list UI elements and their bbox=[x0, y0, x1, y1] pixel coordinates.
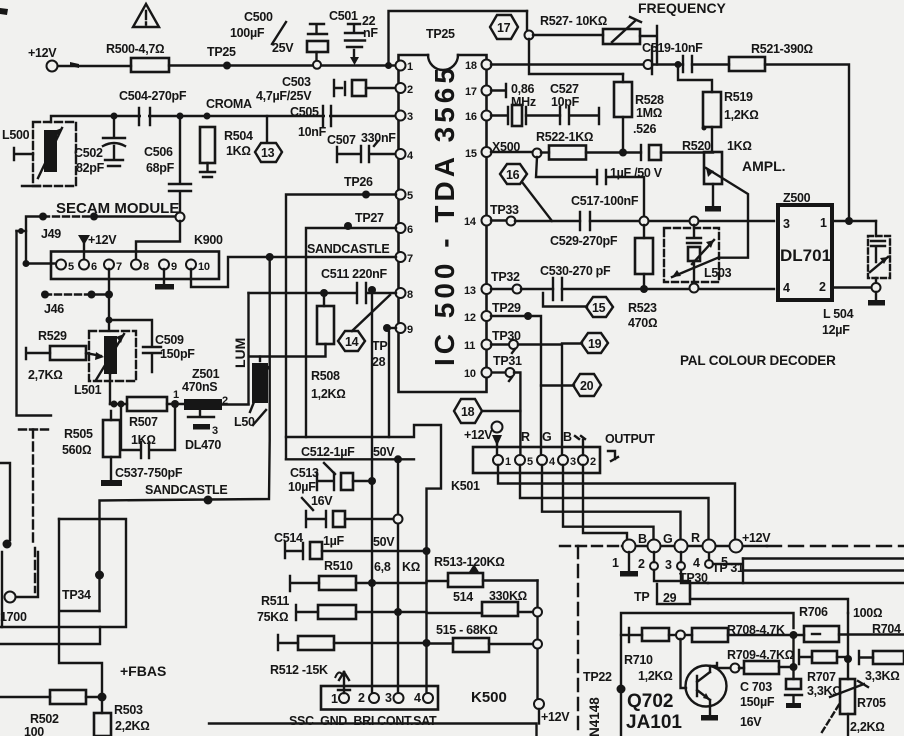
svg-text:1: 1 bbox=[505, 456, 511, 468]
svg-text:SANDCASTLE: SANDCASTLE bbox=[307, 242, 389, 256]
svg-text:OUTPUT: OUTPUT bbox=[605, 432, 655, 446]
svg-text:SECAM MODULE: SECAM MODULE bbox=[56, 200, 179, 217]
svg-text:R705: R705 bbox=[857, 696, 886, 710]
svg-text:R505: R505 bbox=[64, 427, 93, 441]
capacitor C527 bbox=[550, 82, 599, 124]
capacitor C703 bbox=[740, 667, 802, 729]
svg-text:7: 7 bbox=[407, 253, 413, 265]
svg-text:R706: R706 bbox=[799, 605, 828, 619]
svg-text:9: 9 bbox=[407, 324, 413, 336]
svg-text:8: 8 bbox=[407, 289, 413, 301]
svg-text:K900: K900 bbox=[194, 233, 223, 247]
svg-text:TP34: TP34 bbox=[62, 588, 91, 602]
wire +12V to R500 bbox=[58, 62, 131, 68]
wire K501 pin3 bus B bbox=[563, 465, 654, 540]
svg-text:KΩ: KΩ bbox=[402, 560, 420, 574]
svg-text:3: 3 bbox=[385, 691, 392, 705]
svg-text:Z501: Z501 bbox=[192, 367, 220, 381]
svg-text:TP32: TP32 bbox=[491, 270, 520, 284]
delay line Z501 DL470 bbox=[173, 367, 249, 410]
svg-text:470Ω: 470Ω bbox=[628, 316, 657, 330]
svg-text:25V: 25V bbox=[272, 41, 294, 55]
wire pin13 row bbox=[491, 270, 553, 294]
pin 18 bbox=[465, 60, 492, 73]
svg-text:1700: 1700 bbox=[0, 610, 27, 624]
svg-text:4,7µF/25V: 4,7µF/25V bbox=[256, 89, 312, 103]
resistor R504 bbox=[200, 127, 253, 177]
pin 15 bbox=[465, 147, 492, 160]
wire pin12 G line bbox=[491, 301, 541, 455]
svg-text:100: 100 bbox=[24, 725, 44, 736]
svg-text:R519: R519 bbox=[724, 90, 753, 104]
svg-text:2,7KΩ: 2,7KΩ bbox=[28, 368, 63, 382]
svg-text:R521-390Ω: R521-390Ω bbox=[751, 42, 813, 56]
svg-text:C507: C507 bbox=[327, 133, 356, 147]
svg-text:+12V: +12V bbox=[464, 428, 493, 442]
svg-text:C530-270 pF: C530-270 pF bbox=[540, 264, 611, 278]
svg-text:DL470: DL470 bbox=[185, 438, 221, 452]
svg-text:SSC GND BRI CONT.SAT: SSC GND BRI CONT.SAT bbox=[289, 714, 437, 728]
coil L500 bbox=[2, 122, 76, 186]
svg-text:2,2KΩ: 2,2KΩ bbox=[850, 720, 885, 734]
svg-text:515 - 68KΩ: 515 - 68KΩ bbox=[436, 623, 498, 637]
arrow K500 pin1 bbox=[338, 672, 350, 693]
test point TP34 bbox=[62, 571, 104, 603]
svg-text:1µF: 1µF bbox=[323, 534, 345, 548]
hex node 20 bbox=[541, 374, 601, 396]
svg-text:R503: R503 bbox=[114, 703, 143, 717]
svg-text:L500: L500 bbox=[2, 128, 30, 142]
svg-text:10: 10 bbox=[464, 368, 476, 380]
svg-text:514: 514 bbox=[453, 590, 473, 604]
svg-text:TP33: TP33 bbox=[490, 203, 519, 217]
svg-text:2,2KΩ: 2,2KΩ bbox=[115, 719, 150, 733]
test point TP31 lower bbox=[705, 553, 904, 583]
hex node 17 bbox=[490, 15, 518, 39]
svg-text:6: 6 bbox=[91, 261, 97, 273]
coil L504 bbox=[822, 307, 854, 337]
resistor R507 bbox=[127, 397, 184, 447]
svg-text:LUM: LUM bbox=[232, 338, 248, 368]
svg-text:3: 3 bbox=[407, 111, 413, 123]
svg-text:1,2KΩ: 1,2KΩ bbox=[724, 108, 759, 122]
svg-text:R529: R529 bbox=[38, 329, 67, 343]
wire DL701 pin1 bbox=[832, 217, 876, 225]
svg-text:R523: R523 bbox=[628, 301, 657, 315]
svg-text:3: 3 bbox=[212, 425, 218, 437]
svg-text:C502: C502 bbox=[74, 146, 103, 160]
svg-text:C513: C513 bbox=[290, 466, 319, 480]
capacitor C513 bbox=[288, 466, 403, 527]
svg-text:TP: TP bbox=[372, 339, 387, 353]
svg-text:R510: R510 bbox=[324, 559, 353, 573]
capacitor C537 bbox=[115, 404, 183, 480]
pin 17 bbox=[465, 86, 492, 99]
svg-text:12: 12 bbox=[464, 312, 476, 324]
svg-text:16V: 16V bbox=[740, 715, 762, 729]
svg-text:TP25: TP25 bbox=[426, 27, 455, 41]
svg-text:1: 1 bbox=[612, 556, 619, 570]
pin 6 bbox=[396, 223, 414, 236]
terminal 3 G bbox=[663, 532, 688, 572]
svg-text:8: 8 bbox=[143, 261, 149, 273]
svg-text:100Ω: 100Ω bbox=[853, 606, 882, 620]
svg-text:1: 1 bbox=[820, 216, 827, 230]
svg-text:3: 3 bbox=[783, 217, 790, 231]
svg-text:TP29: TP29 bbox=[492, 301, 521, 315]
capacitor C506 bbox=[144, 113, 191, 214]
resistor R511 bbox=[257, 594, 427, 624]
jumper J46 bbox=[41, 291, 113, 317]
svg-text:100µF: 100µF bbox=[230, 26, 265, 40]
pin 7 bbox=[396, 252, 414, 265]
svg-text:C 703: C 703 bbox=[740, 680, 772, 694]
connector K501 bbox=[451, 447, 600, 493]
svg-text:16: 16 bbox=[506, 168, 520, 182]
R704 label bbox=[853, 606, 901, 636]
hex node 18 bbox=[454, 399, 520, 423]
capacitor C505 bbox=[290, 105, 331, 139]
wire left rail bbox=[17, 231, 52, 416]
left module dashed border bbox=[19, 430, 51, 593]
test point TP29 lower bbox=[634, 552, 848, 613]
node CROMA bbox=[204, 97, 252, 120]
capacitor C519 bbox=[642, 41, 729, 72]
wire +12V feeder bbox=[536, 581, 538, 700]
wire bottom rail bbox=[209, 724, 537, 736]
svg-text:3: 3 bbox=[570, 456, 576, 468]
capacitor C511 bbox=[249, 267, 397, 303]
resistor R503 bbox=[94, 697, 150, 736]
svg-text:5: 5 bbox=[68, 261, 74, 273]
svg-text:9: 9 bbox=[171, 261, 177, 273]
pin 3 bbox=[396, 111, 414, 124]
svg-text:5: 5 bbox=[527, 456, 533, 468]
svg-text:560Ω: 560Ω bbox=[62, 443, 91, 457]
+12V supply terminal bbox=[28, 46, 58, 72]
pin 10 bbox=[464, 368, 492, 381]
svg-text:330nF: 330nF bbox=[361, 131, 396, 145]
svg-text:13: 13 bbox=[464, 285, 476, 297]
svg-text:R522-1KΩ: R522-1KΩ bbox=[536, 130, 593, 144]
svg-text:Z500: Z500 bbox=[783, 191, 811, 205]
resistor R502 bbox=[0, 690, 102, 736]
svg-text:75KΩ: 75KΩ bbox=[257, 610, 288, 624]
svg-text:5: 5 bbox=[407, 190, 413, 202]
capacitor C507 bbox=[327, 131, 396, 162]
wire brightness bus bbox=[371, 293, 373, 698]
svg-text:15: 15 bbox=[592, 301, 606, 315]
svg-text:Q702: Q702 bbox=[627, 691, 673, 712]
svg-text:14: 14 bbox=[345, 335, 359, 349]
svg-text:1: 1 bbox=[173, 389, 179, 401]
svg-text:1,2KΩ: 1,2KΩ bbox=[311, 387, 346, 401]
svg-text:C537-750pF: C537-750pF bbox=[115, 466, 183, 480]
svg-text:C506: C506 bbox=[144, 145, 173, 159]
svg-text:12µF: 12µF bbox=[822, 323, 850, 337]
svg-text:2: 2 bbox=[590, 456, 596, 468]
wire Q702 base bbox=[681, 639, 687, 688]
resistor R512 bbox=[270, 635, 431, 678]
svg-text:R507: R507 bbox=[129, 415, 158, 429]
svg-text:6,8: 6,8 bbox=[374, 560, 391, 574]
pin 2 bbox=[396, 83, 414, 96]
svg-text:R511: R511 bbox=[261, 594, 289, 608]
svg-text:4: 4 bbox=[693, 556, 700, 570]
svg-text:G: G bbox=[663, 532, 672, 546]
svg-text:C512-1µF: C512-1µF bbox=[301, 445, 355, 459]
resistor R706 bbox=[799, 605, 904, 642]
wire TP26 line bbox=[286, 175, 396, 459]
svg-text:L503: L503 bbox=[704, 266, 732, 280]
module border dashed bbox=[560, 546, 904, 736]
svg-text:IC 500 - TDA 3565: IC 500 - TDA 3565 bbox=[429, 64, 460, 366]
svg-text:3: 3 bbox=[665, 558, 672, 572]
wire K900 pin8 to secam line bbox=[136, 221, 180, 259]
svg-text:AMPL.: AMPL. bbox=[742, 158, 786, 174]
wire sandcastle net bbox=[100, 257, 270, 611]
svg-text:.526: .526 bbox=[633, 122, 656, 136]
ground DL701 pin2 bbox=[832, 288, 885, 306]
warning triangle bbox=[133, 4, 159, 27]
+12V feed K900 pin6 bbox=[78, 233, 117, 259]
wire K900 pin7 down bbox=[108, 269, 110, 331]
capacitor DL470 pin3 ground bbox=[185, 410, 221, 452]
capacitor C504 bbox=[119, 89, 187, 125]
IC Z500 DL701 bbox=[778, 191, 832, 300]
capacitor C529 bbox=[550, 212, 774, 248]
svg-text:17: 17 bbox=[497, 21, 511, 35]
svg-text:C509: C509 bbox=[155, 333, 184, 347]
svg-text:PAL COLOUR DECODER: PAL COLOUR DECODER bbox=[680, 353, 836, 368]
svg-text:J49: J49 bbox=[41, 227, 61, 241]
svg-text:+12V: +12V bbox=[28, 46, 57, 60]
svg-text:SANDCASTLE: SANDCASTLE bbox=[145, 483, 227, 497]
wire K501 pin1 bus bbox=[498, 465, 735, 540]
svg-text:1KΩ: 1KΩ bbox=[727, 139, 752, 153]
svg-text:TP 31: TP 31 bbox=[712, 561, 744, 575]
crystal tick pin17 bbox=[491, 82, 536, 109]
resistor R522 bbox=[536, 130, 641, 160]
terminal J700 bbox=[0, 540, 38, 628]
wire luma row bbox=[110, 401, 127, 408]
wire K900 pin10 to IC pin7 bbox=[191, 253, 396, 287]
terminal 4 R bbox=[691, 531, 716, 570]
capacitor C502 bbox=[74, 113, 125, 176]
crystal X500 bbox=[491, 105, 560, 126]
resistor R710 bbox=[621, 628, 685, 683]
IC U500 TDA3565 body bbox=[399, 27, 487, 392]
svg-text:R504: R504 bbox=[224, 129, 253, 143]
resistor R708 bbox=[685, 623, 804, 642]
resistor R508 bbox=[249, 293, 346, 404]
pin 1 bbox=[396, 61, 414, 74]
svg-text:TP30: TP30 bbox=[679, 571, 708, 585]
resistor R500 bbox=[106, 42, 169, 72]
wire secam dashed link bbox=[39, 213, 185, 222]
svg-text:R512 -15K: R512 -15K bbox=[270, 663, 328, 677]
svg-text:4: 4 bbox=[414, 691, 421, 705]
svg-text:G: G bbox=[542, 430, 551, 444]
svg-text:20: 20 bbox=[580, 379, 594, 393]
svg-text:5: 5 bbox=[721, 555, 728, 569]
svg-text:L50: L50 bbox=[234, 415, 255, 429]
terminal 1 bbox=[612, 540, 636, 571]
svg-text:TP31: TP31 bbox=[493, 354, 522, 368]
svg-text:14: 14 bbox=[464, 216, 477, 228]
svg-text:50V: 50V bbox=[373, 535, 395, 549]
coil L503 bbox=[664, 225, 732, 293]
svg-text:TP26: TP26 bbox=[344, 175, 373, 189]
wire amp right vertical bbox=[847, 613, 849, 679]
svg-text:DL701: DL701 bbox=[780, 246, 831, 265]
svg-text:2: 2 bbox=[819, 280, 826, 294]
svg-text:10: 10 bbox=[198, 261, 210, 273]
capacitor C503 bbox=[256, 75, 396, 103]
wire BGR feed row bbox=[622, 545, 767, 547]
capacitor C501 bbox=[329, 9, 378, 65]
capacitor C530 bbox=[540, 264, 774, 300]
wire TP27 line bbox=[306, 211, 396, 437]
pin 16 bbox=[465, 111, 492, 124]
svg-text:R513-120KΩ: R513-120KΩ bbox=[434, 555, 505, 569]
svg-text:16: 16 bbox=[465, 111, 477, 123]
wire pin14 row bbox=[490, 203, 580, 226]
svg-text:0,86: 0,86 bbox=[511, 82, 534, 96]
pin 4 bbox=[396, 149, 415, 162]
connector K500 bbox=[321, 686, 438, 710]
svg-text:J46: J46 bbox=[44, 302, 64, 316]
svg-text:R528: R528 bbox=[635, 93, 664, 107]
hex node 14 bbox=[338, 295, 390, 351]
potentiometer R520 bbox=[672, 139, 752, 277]
svg-text:C527: C527 bbox=[550, 82, 579, 96]
svg-text:17: 17 bbox=[465, 86, 477, 98]
+12V lower terminal bbox=[534, 699, 570, 724]
svg-text:3,3KΩ: 3,3KΩ bbox=[865, 669, 900, 683]
capacitor C509 bbox=[106, 317, 196, 373]
svg-text:L501: L501 bbox=[74, 383, 102, 397]
potentiometer R527 bbox=[525, 11, 658, 65]
wire supply bracket bbox=[286, 425, 441, 698]
resistor R528 bbox=[614, 74, 664, 152]
svg-text:R704: R704 bbox=[872, 622, 901, 636]
resistor R529 bbox=[26, 329, 104, 382]
svg-text:B: B bbox=[563, 430, 572, 444]
wire amp module frame bbox=[621, 613, 794, 736]
wire IC top to R527 branch bbox=[389, 11, 528, 65]
svg-text:MHz: MHz bbox=[511, 95, 536, 109]
wire croma line bbox=[51, 116, 398, 122]
svg-text:15: 15 bbox=[465, 148, 477, 160]
svg-text:C503: C503 bbox=[282, 75, 311, 89]
svg-text:C505: C505 bbox=[290, 105, 319, 119]
svg-text:50V: 50V bbox=[373, 445, 395, 459]
svg-text:19: 19 bbox=[588, 337, 602, 351]
pin 14 bbox=[464, 216, 492, 229]
svg-text:TP: TP bbox=[634, 590, 649, 604]
pin 9 bbox=[396, 323, 414, 336]
capacitor C500 bbox=[230, 10, 328, 69]
resistor R519 bbox=[675, 61, 759, 152]
resistor R515 bbox=[427, 623, 543, 652]
svg-text:CROMA: CROMA bbox=[206, 97, 252, 111]
hex node 15 bbox=[543, 293, 613, 317]
svg-text:1MΩ: 1MΩ bbox=[636, 106, 662, 120]
capacitor C517 bbox=[536, 157, 644, 216]
svg-text:1KΩ: 1KΩ bbox=[226, 144, 251, 158]
test point TP28 bbox=[372, 324, 396, 437]
capacitor C512 bbox=[301, 445, 395, 490]
svg-text:TP25: TP25 bbox=[207, 45, 236, 59]
svg-text:N4148: N4148 bbox=[587, 697, 602, 736]
wire pin15 row bbox=[491, 140, 549, 158]
wire pin11 B line bbox=[491, 329, 562, 455]
svg-text:2: 2 bbox=[358, 691, 365, 705]
wire pin10 R line bbox=[492, 354, 522, 455]
svg-text:R: R bbox=[691, 531, 700, 545]
svg-text:R508: R508 bbox=[311, 369, 340, 383]
svg-text:K501: K501 bbox=[451, 479, 480, 493]
wire pin18 row bbox=[491, 60, 683, 69]
svg-text:68pF: 68pF bbox=[146, 161, 175, 175]
svg-text:L 504: L 504 bbox=[823, 307, 854, 321]
svg-text:4: 4 bbox=[783, 281, 790, 295]
hex node 19 bbox=[562, 333, 608, 353]
wire K900 pin5 to rail bbox=[23, 260, 57, 267]
scan artifact top-left bbox=[0, 8, 8, 15]
svg-text:C529-270pF: C529-270pF bbox=[550, 234, 618, 248]
svg-text:R710: R710 bbox=[624, 653, 653, 667]
resistor R704 body bbox=[859, 651, 904, 683]
trimmer C522 bbox=[868, 221, 890, 292]
resistor R514 bbox=[427, 589, 543, 617]
svg-text:FREQUENCY: FREQUENCY bbox=[638, 0, 727, 16]
+12V feed K501 bbox=[464, 422, 503, 456]
wire R527 lower branch bbox=[529, 39, 652, 74]
test point TP30 lower bbox=[677, 552, 904, 585]
wire K501 pin2 bus bbox=[583, 465, 627, 541]
svg-text:C517-100nF: C517-100nF bbox=[571, 194, 639, 208]
svg-text:JA101: JA101 bbox=[626, 712, 682, 733]
svg-text:TP27: TP27 bbox=[355, 211, 384, 225]
capacitor C514 bbox=[274, 531, 431, 559]
svg-text:470nS: 470nS bbox=[182, 380, 217, 394]
svg-text:+FBAS: +FBAS bbox=[120, 663, 166, 679]
svg-text:3,3KΩ: 3,3KΩ bbox=[807, 684, 842, 698]
trimmer R705 bbox=[822, 679, 886, 736]
svg-text:28: 28 bbox=[372, 355, 386, 369]
pin 13 bbox=[464, 284, 492, 297]
svg-text:82pF: 82pF bbox=[76, 161, 105, 175]
wire K501 pin5 bus R bbox=[520, 465, 709, 540]
svg-text:6: 6 bbox=[407, 224, 413, 236]
test point TP22 bbox=[583, 670, 626, 694]
svg-text:1: 1 bbox=[407, 61, 413, 73]
svg-text:18: 18 bbox=[461, 405, 475, 419]
resistor R523 bbox=[628, 225, 657, 330]
svg-text:1: 1 bbox=[331, 692, 338, 706]
svg-text:C500: C500 bbox=[244, 10, 273, 24]
resistor R505 bbox=[62, 411, 122, 486]
svg-text:10µF: 10µF bbox=[288, 480, 316, 494]
capacitor C526 bbox=[610, 145, 713, 180]
svg-text:10pF: 10pF bbox=[551, 95, 580, 109]
coil L501 bbox=[74, 331, 136, 404]
OUTPUT label bbox=[605, 432, 655, 461]
svg-text:150pF: 150pF bbox=[160, 347, 195, 361]
svg-text:TP22: TP22 bbox=[583, 670, 612, 684]
